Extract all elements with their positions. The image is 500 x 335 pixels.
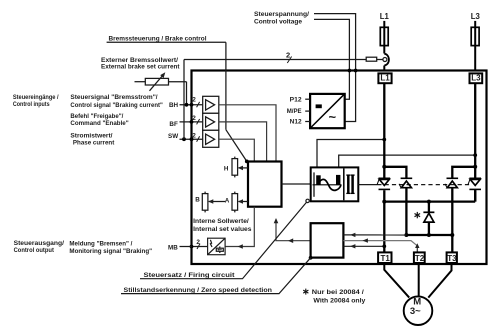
svg-text:B: B xyxy=(195,197,200,204)
terminal box T3 xyxy=(447,252,458,263)
wire control voltage N12 xyxy=(314,14,356,122)
svg-text:Steuerausgang/: Steuerausgang/ xyxy=(14,240,65,247)
wire control tap vertical to SW xyxy=(183,60,185,140)
wire comparator U1 output xyxy=(219,105,276,162)
terminal box T1 xyxy=(378,252,391,263)
svg-text:Control signal "Braking curren: Control signal "Braking current" xyxy=(70,102,162,109)
wire sense from T1 line xyxy=(343,245,384,247)
wire firing output solid xyxy=(358,184,377,186)
wire controller bottom to MB node xyxy=(225,207,254,247)
wire L3 fuse down xyxy=(474,46,476,71)
svg-text:Stillstandserkennung / Zero sp: Stillstandserkennung / Zero speed detect… xyxy=(124,287,273,294)
wire comparator U2 output xyxy=(219,122,267,162)
svg-text:Steuerspannung/: Steuerspannung/ xyxy=(254,11,309,18)
svg-text:Bremssteuerung / Brake control: Bremssteuerung / Brake control xyxy=(109,35,207,42)
wire zero-speed to controller (up arrow) xyxy=(276,220,311,241)
signal converter MB block xyxy=(208,238,226,255)
thyristor Q3 (up) xyxy=(445,178,458,188)
junction SW box edge xyxy=(190,137,194,141)
comparator U1 xyxy=(203,96,219,113)
thyristor Q2 (up) xyxy=(399,178,412,188)
junction control voltage on box edge 1 xyxy=(348,69,352,73)
wire fuse to L1 tap xyxy=(377,59,383,61)
svg-text:Steuersignal "Bremsstrom"/: Steuersignal "Bremsstrom"/ xyxy=(70,94,157,101)
zero speed detection block xyxy=(311,223,344,257)
svg-text:Interne Sollwerte/: Interne Sollwerte/ xyxy=(193,218,249,225)
svg-text:BF: BF xyxy=(169,121,178,128)
wire controller to A arrow xyxy=(239,201,249,203)
wire controller to H arrow xyxy=(239,167,249,169)
wire brake control underline xyxy=(107,41,226,43)
fuse F1 xyxy=(380,21,388,46)
junction BF box edge xyxy=(190,120,194,124)
svg-text:T2: T2 xyxy=(415,254,425,263)
potentiometer B internal xyxy=(202,192,208,213)
svg-text:3~: 3~ xyxy=(410,306,421,317)
svg-text:L1: L1 xyxy=(380,12,390,21)
svg-text:MB: MB xyxy=(168,244,178,251)
diode D1 with asterisk xyxy=(423,202,434,235)
svg-text:L3: L3 xyxy=(471,73,481,82)
controller block (central) xyxy=(248,162,282,207)
wire T2 to motor xyxy=(418,263,420,296)
main enclosure box xyxy=(192,71,487,265)
svg-text:2: 2 xyxy=(192,133,196,140)
svg-text:T1: T1 xyxy=(381,254,391,263)
svg-text:M/PE: M/PE xyxy=(287,108,302,115)
terminal box T2 xyxy=(414,252,425,263)
wire sense from T2 (gray) xyxy=(343,241,417,246)
wire thyristor Q2 lead down xyxy=(405,188,407,235)
svg-text:Control voltage: Control voltage xyxy=(254,19,303,26)
wire MB block to box edge xyxy=(192,246,208,248)
terminal box L3 xyxy=(470,73,483,83)
svg-text:2: 2 xyxy=(286,50,290,59)
wire input SW xyxy=(180,138,203,140)
wire controller to firing block xyxy=(282,183,311,185)
arrow on zero-speed output wire xyxy=(288,238,293,243)
wire upper cathode bus xyxy=(384,200,475,202)
wire L1 sync tap xyxy=(317,140,384,168)
gate terminal circle firing block xyxy=(306,199,309,202)
junction zero speed pointer xyxy=(309,256,313,260)
wire L1 fuse down with tap loop xyxy=(383,46,385,54)
label asterisk at diode xyxy=(415,212,421,218)
svg-text:A: A xyxy=(225,198,230,205)
wire gate bus dashed xyxy=(377,184,471,186)
pin N12 xyxy=(305,121,310,123)
wire control voltage tap line xyxy=(184,59,366,61)
svg-text:BH: BH xyxy=(169,102,179,109)
junction BH box edge xyxy=(190,103,194,107)
junction control voltage on box edge 2 xyxy=(354,69,358,73)
wire thyristor Q3 / T3 lead down xyxy=(451,188,453,252)
svg-text:L1: L1 xyxy=(380,73,390,82)
pin M/PE xyxy=(305,110,310,112)
wire thyristor top bus left xyxy=(384,167,406,178)
wire input BF xyxy=(180,121,203,123)
wire T3 to motor xyxy=(428,263,451,297)
svg-text:With 20084 only: With 20084 only xyxy=(313,298,366,305)
svg-text:2: 2 xyxy=(192,115,196,122)
svg-text:L3: L3 xyxy=(471,12,481,21)
wire thyristor Q4 lead down xyxy=(474,189,476,201)
svg-text:N12: N12 xyxy=(290,118,303,125)
potentiometer H internal xyxy=(232,157,238,178)
junction BH pot xyxy=(185,103,189,107)
pin P12 xyxy=(305,98,310,100)
svg-text:Command "Enable": Command "Enable" xyxy=(70,120,128,127)
junction controller top-left xyxy=(245,160,249,164)
motor M 3~ xyxy=(404,296,433,325)
wire control voltage P12 xyxy=(314,19,349,99)
arrow into MB converter xyxy=(238,244,243,249)
wire A to B arrow xyxy=(209,201,225,203)
thyristor Q4 (down) xyxy=(468,178,481,189)
thyristor Q1 (down) xyxy=(377,178,390,189)
svg-text:P12: P12 xyxy=(290,96,303,103)
wire L1 phase down xyxy=(383,83,385,177)
comparator U3 xyxy=(203,130,219,147)
wire sense from lower bus to block xyxy=(343,234,406,236)
potentiometer external brake set xyxy=(135,72,187,91)
wire T1 to motor xyxy=(384,263,409,297)
svg-text:External brake set current: External brake set current xyxy=(101,64,180,71)
junction L1 sync xyxy=(382,138,386,142)
potentiometer A internal xyxy=(232,192,238,213)
comparator U2 xyxy=(203,113,219,130)
wire thyristor top bus right xyxy=(452,167,475,178)
wire L3 sync tap xyxy=(339,155,476,167)
wire brake control diagonal to controller xyxy=(226,130,247,162)
svg-text:Steuereingänge /: Steuereingänge / xyxy=(13,94,59,101)
firing circuit block xyxy=(311,167,359,201)
svg-text:Nur bei 20084 /: Nur bei 20084 / xyxy=(312,289,364,296)
wire potentiometer down to BH xyxy=(186,82,188,105)
wire lower bus xyxy=(406,234,452,236)
fuse control voltage xyxy=(366,57,377,61)
label footnote xyxy=(303,289,308,295)
svg-text:H: H xyxy=(224,165,229,172)
wire brake control vertical xyxy=(225,42,227,129)
svg-text:Control inputs: Control inputs xyxy=(13,101,50,108)
wire input BH xyxy=(180,104,203,106)
svg-text:~: ~ xyxy=(329,110,337,125)
pointer firing circuit xyxy=(140,202,307,279)
terminal circle on L1 xyxy=(383,58,387,62)
fuse F3 xyxy=(471,21,479,46)
wire comparator U3 output xyxy=(219,139,255,161)
svg-text:T3: T3 xyxy=(447,254,457,263)
svg-text:Monitoring signal "Braking": Monitoring signal "Braking" xyxy=(69,248,152,255)
junction L3 sync xyxy=(473,153,477,157)
junction MB box edge xyxy=(190,245,194,249)
svg-text:Phase current: Phase current xyxy=(73,140,115,147)
svg-text:Stromistwert/: Stromistwert/ xyxy=(70,132,112,139)
svg-text:2: 2 xyxy=(192,97,196,104)
wire L3 phase down xyxy=(474,83,476,177)
pointer zero speed xyxy=(121,258,311,294)
svg-text:Control output: Control output xyxy=(14,247,55,254)
power supply block xyxy=(310,94,345,128)
junction SW control line xyxy=(182,137,186,141)
svg-text:SW: SW xyxy=(168,133,178,140)
wire MB out xyxy=(180,246,192,248)
svg-text:Meldung "Bremsen" /: Meldung "Bremsen" / xyxy=(69,241,132,248)
svg-text:Internal set values: Internal set values xyxy=(193,226,252,233)
terminal box L1 xyxy=(378,73,391,83)
